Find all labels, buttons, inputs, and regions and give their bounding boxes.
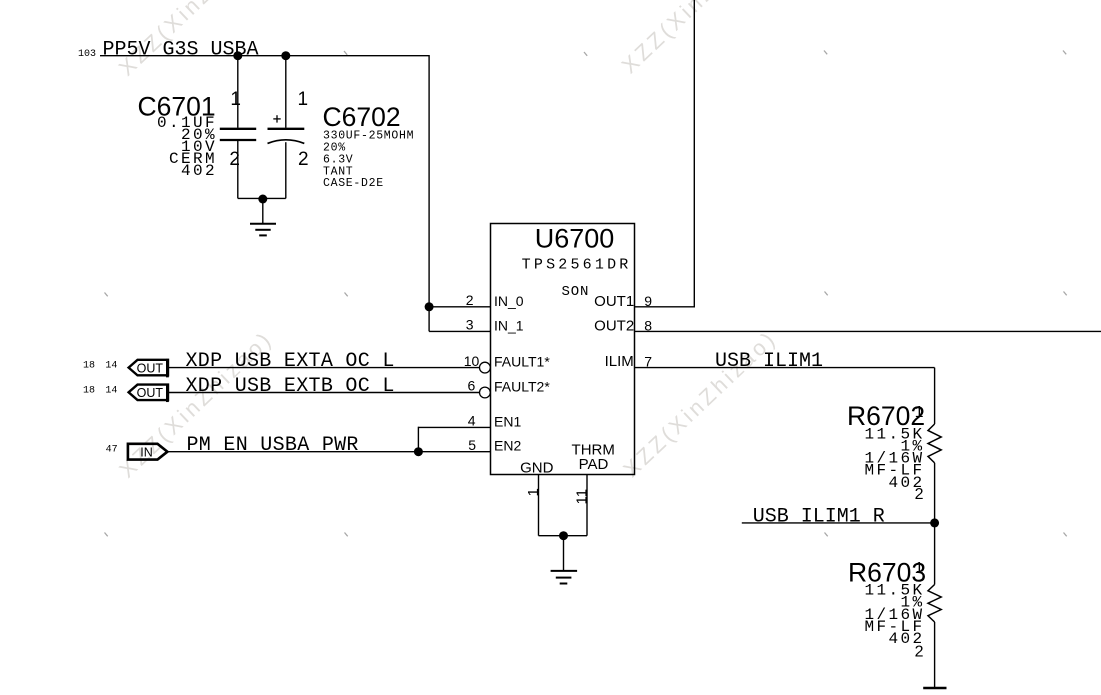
svg-text:FAULT1*: FAULT1* <box>494 354 550 370</box>
svg-text:PAD: PAD <box>579 456 609 473</box>
svg-text:EN1: EN1 <box>494 413 521 429</box>
svg-text:1: 1 <box>525 488 542 496</box>
svg-text:103: 103 <box>78 49 96 60</box>
svg-text:ILIM: ILIM <box>605 353 634 370</box>
svg-text:SON: SON <box>561 284 589 300</box>
svg-text:5: 5 <box>468 437 476 453</box>
svg-text:10: 10 <box>464 353 480 369</box>
svg-text:CASE-D2E: CASE-D2E <box>323 177 384 190</box>
svg-text:XDP USB EXTA OC L: XDP USB EXTA OC L <box>186 350 395 373</box>
svg-text:3: 3 <box>466 317 474 333</box>
svg-text:1: 1 <box>298 89 309 110</box>
svg-text:2: 2 <box>298 149 309 170</box>
svg-text:14: 14 <box>105 385 117 396</box>
svg-text:4: 4 <box>468 413 476 429</box>
svg-text:1: 1 <box>915 404 924 421</box>
svg-text:IN: IN <box>140 446 153 460</box>
svg-text:FAULT2*: FAULT2* <box>494 379 550 395</box>
svg-text:TPS2561DR: TPS2561DR <box>522 256 632 273</box>
svg-text:2: 2 <box>915 644 924 661</box>
svg-text:XZZ(XinZhizao): XZZ(XinZhizao) <box>617 0 780 78</box>
svg-text:GND: GND <box>520 459 554 476</box>
svg-text:402: 402 <box>181 162 217 180</box>
svg-text:2: 2 <box>229 149 240 170</box>
svg-text:18: 18 <box>83 360 95 371</box>
svg-text:11: 11 <box>574 489 591 505</box>
svg-text:USB ILIM1: USB ILIM1 <box>715 350 823 373</box>
svg-text:OUT2: OUT2 <box>594 317 634 334</box>
svg-text:1: 1 <box>230 89 241 110</box>
svg-text:XDP USB EXTB OC L: XDP USB EXTB OC L <box>186 375 395 398</box>
svg-text:2: 2 <box>915 486 924 503</box>
svg-text:PM EN USBA PWR: PM EN USBA PWR <box>187 434 359 457</box>
svg-text:18: 18 <box>83 385 95 396</box>
svg-text:OUT: OUT <box>137 361 164 375</box>
svg-text:PP5V G3S USBA: PP5V G3S USBA <box>103 38 259 61</box>
svg-text:IN_1: IN_1 <box>494 317 524 333</box>
svg-text:IN_0: IN_0 <box>494 293 524 309</box>
svg-text:C6702: C6702 <box>323 102 401 132</box>
svg-text:EN2: EN2 <box>494 438 521 454</box>
svg-text:OUT1: OUT1 <box>594 293 634 310</box>
svg-text:47: 47 <box>106 444 118 455</box>
svg-text:2: 2 <box>466 292 474 308</box>
svg-text:14: 14 <box>105 360 117 371</box>
svg-text:XZZ(XinZhizao): XZZ(XinZhizao) <box>618 325 781 482</box>
svg-text:1: 1 <box>915 560 924 577</box>
svg-text:USB ILIM1 R: USB ILIM1 R <box>753 505 885 528</box>
svg-text:OUT: OUT <box>137 386 164 400</box>
svg-text:U6700: U6700 <box>535 223 615 253</box>
svg-text:6: 6 <box>468 378 476 394</box>
